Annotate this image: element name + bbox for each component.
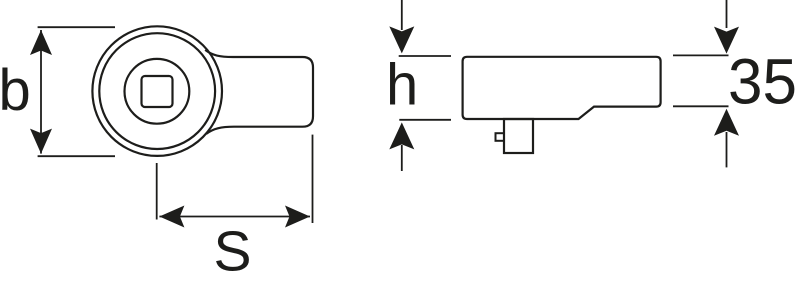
dimension 35: up arrowhead <box>714 109 739 136</box>
square drive hole <box>142 76 173 107</box>
dimension S: left arrowhead <box>159 206 184 228</box>
dimension h: lower leader line <box>401 145 403 171</box>
dimension h: bottom extension line <box>399 119 451 121</box>
dimension b: bottom extension line <box>38 155 115 157</box>
svg-text:b: b <box>0 58 31 123</box>
dimension S: right extension line <box>312 135 314 223</box>
dimension S: horizontal dimension line <box>159 216 310 218</box>
dimension h: top extension line <box>399 55 451 57</box>
outer circle of wrench head (front view) <box>92 26 222 156</box>
dimension b: upper arrowhead <box>30 30 52 55</box>
square drive peg (side view) <box>504 119 533 153</box>
svg-text:h: h <box>386 53 418 118</box>
dimension S: left extension line <box>156 163 158 220</box>
dimension 35: lower leader line <box>726 132 728 167</box>
dimension b: top extension line <box>38 26 115 28</box>
svg-text:S: S <box>214 219 252 283</box>
dimension h: down arrowhead <box>389 26 414 53</box>
dimension 35: bottom extension line <box>673 105 729 107</box>
dimension b: vertical dimension line <box>40 30 42 154</box>
dimension 35: top extension line <box>673 54 729 56</box>
dimension S: right arrowhead <box>285 206 310 228</box>
dimension h: upper leader line <box>401 0 403 30</box>
dimension h: up arrowhead <box>389 122 414 149</box>
release button on peg <box>496 133 505 141</box>
dimension b: lower arrowhead <box>30 129 52 154</box>
dimension 35: upper leader line <box>726 0 728 28</box>
dimension 35: down arrowhead <box>714 27 739 54</box>
chamfer circle of wrench head <box>99 33 215 149</box>
tool body outline (side view) <box>463 57 661 119</box>
tang outline (front view) <box>205 50 313 134</box>
drive bore circle <box>124 59 189 124</box>
svg-text:35: 35 <box>728 46 797 118</box>
